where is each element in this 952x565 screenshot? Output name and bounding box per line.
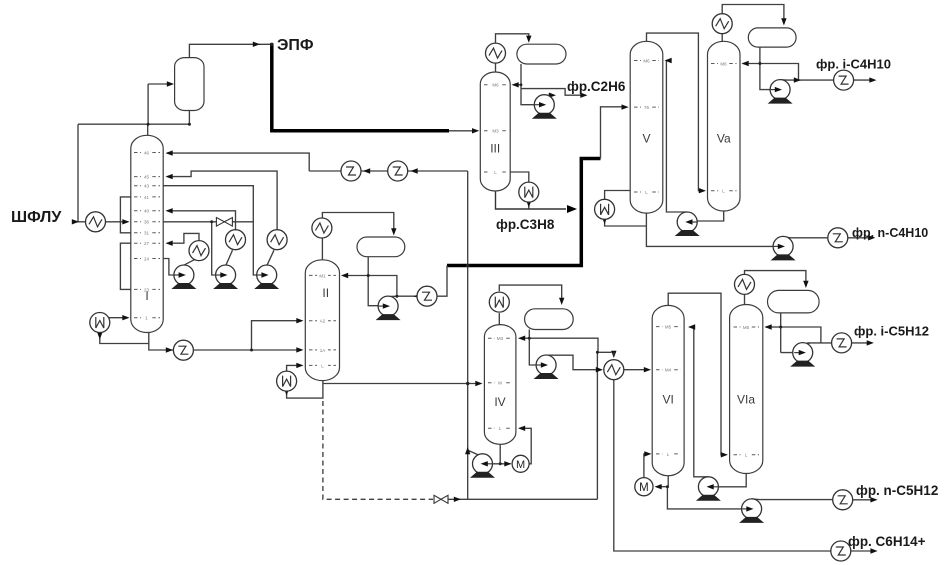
wire: overhead junction run y=124 (78, 84, 189, 222)
svg-text:III: III (490, 142, 500, 156)
wire: IV bottoms pump discharge to riser (469, 451, 479, 456)
node: arrow into column II top (341, 273, 348, 278)
wire: Va overhead to condenser and drum (722, 5, 784, 42)
wire: short feed HX top stub (613, 352, 615, 355)
svg-text:40: 40 (144, 209, 150, 214)
node: arrow into n-C4 pump (777, 244, 784, 249)
drum reflux column II (357, 237, 405, 257)
drum reflux column III (517, 44, 566, 64)
wire: valve side line y=222 (163, 221, 254, 223)
svg-text:M6: M6 (492, 83, 499, 88)
pump i-C4H10 (768, 80, 793, 104)
node: arrow into column VI top (688, 324, 695, 329)
wire: column I reboiler return (100, 313, 128, 318)
svg-text:M3: M3 (492, 129, 499, 134)
node: arrow into column III top (512, 82, 519, 87)
node: arrow into drum VIa (803, 281, 808, 288)
node: feed arrow into column I (122, 219, 129, 224)
wire: IV reflux pump discharge to feed HX (546, 355, 600, 370)
wire: HX train run y=171 (309, 170, 468, 172)
pump P2 column I (213, 265, 238, 289)
svg-text:II: II (322, 286, 329, 300)
svg-text:M4: M4 (665, 368, 672, 373)
svg-text:M: M (639, 482, 649, 494)
wire: reflux into column I top from HX train (167, 153, 309, 171)
column Va (708, 41, 741, 211)
node: arrow up on riser (465, 447, 470, 454)
heat exchanger bottoms I-II (173, 340, 193, 360)
wire: exchanger T3 return to column I (167, 171, 277, 230)
wire: overhead line column I drum to EPF product (189, 44, 270, 57)
pump interconnect V-Va (675, 212, 700, 236)
svg-text:41: 41 (144, 195, 150, 200)
wire: column I bottoms product line (149, 344, 302, 351)
wire: column V reboiler return (605, 219, 647, 226)
node: arrow C2H6 product (580, 93, 587, 98)
heat exchanger reflux column II (417, 286, 437, 306)
node: arrow on bottoms line (166, 347, 173, 352)
node: arrow down under reboiler I (97, 332, 102, 339)
node: arrow vapor into Va (699, 188, 706, 193)
pump n-C5H12 (739, 499, 764, 523)
svg-text:фр. i-С4Н10: фр. i-С4Н10 (816, 57, 891, 72)
heat exchanger i-C4H10 product (834, 70, 854, 90)
node: arrow into drum III (526, 36, 531, 43)
svg-text:фр. n-С5Н12: фр. n-С5Н12 (856, 483, 938, 498)
node: arrow into motor-exchanger VI (655, 484, 662, 489)
svg-text:VI: VI (663, 393, 674, 407)
node: arrow after i-C4 pump (794, 77, 801, 82)
svg-text:M: M (516, 459, 525, 471)
pump interconnect VI-VIa (696, 477, 721, 501)
node: arrow into IV bottoms pump (481, 461, 488, 466)
node: feed arrow into column III (472, 128, 479, 133)
node: level ticks column V (634, 58, 659, 195)
wire: reflux into column III (515, 84, 522, 86)
node: arrow reboiler return into column I (122, 315, 129, 320)
node: arrow into column II upper feed (296, 318, 303, 323)
node: arrow into i-C4 pump (774, 87, 781, 92)
wire: column III reboiler outlet (528, 202, 530, 209)
drum reflux column Va (748, 28, 796, 47)
svg-text:V: V (642, 132, 650, 146)
wire: column III overhead to condenser and drum (496, 34, 529, 72)
wire: column II bottoms to reboiler (287, 381, 323, 399)
node: arrow down under reboiler II (284, 388, 289, 395)
wire: column I bottoms to reboiler (100, 332, 149, 344)
column V (630, 41, 663, 213)
drum reflux column VIa (768, 290, 820, 313)
motor exchanger column VI (635, 478, 653, 496)
wire: column II reboiler return (287, 365, 302, 371)
wire: column I left loop B (120, 243, 131, 289)
node: level ticks column II (309, 273, 336, 369)
wire: thin feed line into column III (449, 130, 477, 132)
wire: column IV bottoms header (484, 444, 511, 464)
wire: column V overhead vapor to Va (647, 33, 704, 191)
wire: IV drum reflux line (520, 330, 530, 339)
wire: column I left loop A (120, 197, 131, 233)
wire: VIa bottoms to interconnect pump (710, 474, 746, 487)
svg-text:24: 24 (144, 256, 150, 261)
pump n-C4H10 (771, 236, 796, 260)
wire: riser to column II upper feed (252, 321, 302, 350)
wire: n-C5H12 product line (752, 499, 875, 500)
node: arrow into pump II (382, 303, 389, 308)
wire: dashed bypass from column II bottoms (323, 401, 433, 499)
heat exchanger i-C5H12 product (832, 333, 852, 353)
wire: thin feed riser to column V (601, 107, 627, 159)
svg-text:M6: M6 (643, 58, 650, 63)
wire: pump P3 to exchanger T3 (267, 250, 274, 265)
condenser column III (486, 43, 506, 63)
column II (305, 260, 339, 381)
wire: VI feed line after HX (624, 369, 649, 371)
wire: exchanger T1 return to column I (167, 233, 199, 243)
wire: column I top to overhead junction (147, 124, 149, 135)
wire: IV reflux pump suction (529, 338, 544, 365)
drum D1 reflux drum column I (175, 58, 204, 111)
wire: drum VIa bottoms (780, 313, 782, 353)
node: arrow into feed HX left (596, 367, 603, 372)
svg-text:фр. С6Н14+: фр. С6Н14+ (848, 534, 926, 549)
reboiler column I (90, 313, 110, 333)
node: arrow left on HX train 1 (363, 168, 370, 173)
node: arrow reflux into column IV (518, 336, 525, 341)
wire: column II bottoms product to column IV (323, 383, 480, 385)
wire: pump P1 to exchanger T1 (185, 259, 197, 265)
node: level ticks column III (484, 82, 507, 175)
node: level ticks column IV (488, 335, 512, 431)
wire: IV drum line to crossover (529, 338, 611, 352)
wire: column VI reboiler draw (656, 476, 668, 487)
svg-text:46: 46 (144, 150, 150, 155)
svg-text:43: 43 (144, 184, 150, 189)
wire: C6H14 line after HX (851, 550, 875, 552)
node: EPF product arrow (253, 42, 260, 47)
wire: thick C3 transfer line to column V (447, 159, 601, 266)
node: arrow left on HX train 2 (411, 168, 418, 173)
pump reflux column IV (534, 355, 559, 379)
node: small arrow on feed start (72, 219, 79, 224)
wire: drum II reflux to column II (368, 257, 386, 306)
node: arrow into interconnect pump VI (707, 484, 714, 489)
svg-text:36: 36 (144, 220, 150, 225)
svg-text:M1: M1 (319, 273, 326, 278)
condenser column Va (712, 14, 732, 34)
node: arrow return into column I level 177 (166, 174, 173, 179)
wire: pump III discharge (544, 94, 551, 97)
svg-text:фр. i-С5Н12: фр. i-С5Н12 (854, 324, 929, 339)
pump P3 column I (254, 265, 279, 289)
wire: column V bottoms line (646, 213, 781, 246)
node: arrow into drum IV (559, 298, 564, 305)
node: arrow into column I top (166, 150, 173, 155)
wire: drum Va bottoms to pump (760, 47, 779, 90)
svg-text:ЭПФ: ЭПФ (277, 37, 314, 54)
node: arrow into IV reflux pump (540, 362, 547, 367)
wire: C2H6 product line (521, 89, 584, 96)
heat exchanger n-C5H12 product (833, 490, 853, 510)
column III (480, 72, 510, 191)
reboiler column III (519, 182, 539, 202)
pump reflux column II (376, 296, 401, 320)
node: arrow into Va top (742, 61, 749, 66)
node: arrow n-C4H10 product (868, 235, 875, 240)
heat exchanger T1 pumparound (189, 241, 209, 261)
svg-text:I: I (145, 289, 148, 303)
wire: i-C4H10 product line (780, 79, 870, 81)
svg-text:27: 27 (144, 241, 150, 246)
svg-text:Va: Va (717, 132, 731, 146)
column VI (652, 305, 684, 475)
node: arrow n-C5H12 product (870, 497, 877, 502)
wire: i-C5 pump discharge tangent (806, 343, 811, 345)
wire: side draw line to pump P3 (163, 186, 266, 275)
node: arrow feed into column IV (475, 381, 482, 386)
pump bottoms column IV (470, 454, 495, 478)
heat exchanger C6H14 product (831, 541, 851, 561)
pump i-C5H12 (790, 343, 815, 367)
wire: motor-exchanger VI return (644, 454, 649, 478)
wire: exchanger T2 return to column I (167, 211, 236, 230)
condenser column VIa (735, 274, 755, 294)
node: arrow into column II lower feed (296, 347, 303, 352)
svg-text:1A: 1A (320, 348, 326, 353)
wire: pump II discharge (389, 295, 397, 297)
node: arrow return into column I level 211 (166, 208, 173, 213)
valve on column I side line (216, 218, 232, 227)
pump C2H6 column III (532, 95, 557, 119)
node: arrow under reboiler V (602, 217, 607, 224)
wire: column III reboiler draw (510, 172, 529, 182)
wire: thick EPF line down to column III feed (272, 43, 449, 131)
heat exchanger T3 pumparound (267, 230, 287, 250)
node: arrow i-C4H10 product (869, 77, 876, 82)
motor exchanger column IV (512, 455, 529, 472)
heat exchanger T2 pumparound (226, 230, 246, 250)
wire: C6H14 line down from feed HX (614, 380, 831, 551)
svg-text:M6: M6 (720, 61, 727, 66)
node: arrow vapor into VIa (721, 452, 728, 457)
wire: n-C4H10 product line (783, 237, 872, 238)
wire: side draw to pump P1 (163, 259, 183, 276)
wire: reflux into VIa (766, 326, 781, 328)
node: pump inlet arrows overlay (174, 87, 806, 512)
wire: motor-exchanger IV return to column (520, 428, 532, 464)
condenser column II (312, 218, 332, 238)
node: arrow into n-C5 pump (746, 506, 753, 511)
node: arrow feed into column V (622, 104, 629, 109)
wire: reflux subcooler line (397, 266, 447, 297)
node: arrow into column V top (665, 58, 672, 63)
wire: column VI overhead vapor to VIa (668, 293, 725, 455)
node: level ticks column Va (711, 61, 737, 194)
node: arrow return into column VI bottom (644, 451, 651, 456)
svg-text:ШФЛУ: ШФЛУ (11, 209, 62, 226)
node: arrow i-C5H12 product (867, 340, 874, 345)
heat exchanger n-C4H10 product (828, 228, 848, 248)
svg-text:фр.С3Н8: фр.С3Н8 (496, 217, 555, 232)
reboiler column II (277, 371, 297, 391)
reboiler column V (595, 199, 615, 219)
wire: drum III bottoms to pump (521, 64, 543, 105)
wire: balance line drum VIa (781, 327, 821, 343)
valve on bypass line (434, 495, 448, 503)
wire: pump P2 to exchanger T2 (226, 250, 232, 265)
svg-text:VIa: VIa (737, 393, 755, 407)
column VIa (730, 305, 763, 474)
node: arrow into i-C5 pump (800, 347, 805, 354)
wire: long vertical riser x=468 (467, 171, 469, 499)
node: arrow into drum D1 (167, 81, 174, 86)
column IV (484, 325, 516, 445)
node: arrow into VIa top (765, 324, 772, 329)
svg-text:фр. n-С4Н10: фр. n-С4Н10 (852, 226, 928, 240)
wire: column IV overhead to condenser and drum (499, 285, 561, 325)
node: arrow down into feed HX top (611, 351, 616, 358)
svg-text:76: 76 (644, 105, 650, 110)
node: arrow feed into column VI (644, 367, 651, 372)
wire: column II overhead to condenser drum (322, 213, 393, 260)
svg-text:фр.С2Н6: фр.С2Н6 (567, 79, 626, 94)
wire: reflux arrow line into column II (343, 275, 369, 277)
svg-text:IV: IV (494, 395, 505, 409)
heat exchanger feed column VI (604, 360, 624, 380)
heat exchanger reflux train 2 (388, 161, 408, 181)
node: arrow reboiler return into column II (296, 363, 303, 368)
svg-text:M3: M3 (497, 336, 504, 341)
svg-text:A2: A2 (320, 319, 326, 324)
node: arrow into pump P2 (220, 272, 227, 277)
wire: i-C5H12 product line (781, 343, 871, 353)
wire: drum II line to HX corner (368, 276, 397, 297)
wire: bypass after valve to riser (448, 498, 597, 500)
wire: VIa overhead to condenser and drum (745, 271, 806, 307)
node: level ticks column VIa (734, 324, 760, 458)
svg-text:M: M (498, 381, 502, 386)
node: junction dots (147, 43, 783, 489)
wire: drum D1 inlet (148, 83, 172, 85)
wire: column III bottoms C3H8 line (496, 191, 567, 210)
node: arrow into pump P3 (261, 272, 268, 277)
condenser column IV (489, 292, 509, 312)
node: arrow pump III discharge (549, 93, 556, 98)
node: arrow into motor-exchanger IV (504, 461, 511, 466)
node: arrow into interconnect pump V (686, 218, 693, 223)
wire: column VI bottoms product (667, 487, 750, 509)
svg-text:31: 31 (144, 231, 150, 236)
wire: Va bottoms to interconnect pump (689, 211, 724, 221)
column I (131, 135, 163, 332)
drum reflux column IV (525, 309, 574, 330)
node: arrow into drum Va (781, 18, 786, 25)
node: arrow left of subcooler (414, 294, 421, 299)
node: arrow after bypass valve (454, 497, 461, 502)
wire: interconnect pump V discharge to column V top (666, 61, 687, 213)
node: arrow into pump III (539, 102, 546, 107)
node: arrow C6H14 product (870, 548, 877, 553)
heat exchanger reflux train 1 (341, 161, 361, 181)
wire: reflux into Va (743, 63, 760, 65)
node: level ticks column I (134, 150, 160, 321)
node: arrow into pump P1 (178, 272, 185, 277)
wire: balance line drum Va (760, 64, 799, 81)
wire: SHFLU feed line (72, 221, 127, 223)
wire: interconnect pump VI discharge to column VI top (690, 327, 709, 477)
node: level ticks column VI (656, 324, 681, 457)
node: arrow under reboiler III (526, 200, 531, 207)
node: bold arrow C3H8 (567, 205, 577, 213)
wire: column V reboiler draw (605, 191, 631, 200)
heat exchanger feed column I (86, 212, 106, 232)
node: arrow return into column I level 243 (166, 241, 173, 246)
node: arrow return into column IV bottom (518, 426, 525, 431)
pump P1 column I (171, 265, 196, 289)
svg-text:M5: M5 (743, 325, 750, 330)
svg-text:M5: M5 (665, 325, 672, 330)
wire: branch to pump P2 (212, 222, 224, 275)
svg-text:45: 45 (144, 175, 150, 180)
wire: bypass riser x=597 (596, 352, 598, 499)
node: arrow into drum II (391, 228, 396, 235)
